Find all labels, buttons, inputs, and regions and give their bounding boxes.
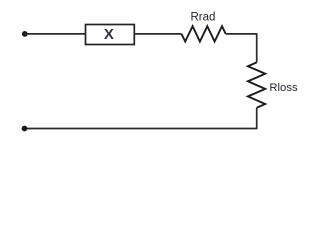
wire right vertical upper segment (256, 33, 258, 62)
terminal node bottom-left (22, 126, 28, 132)
wire from top-left terminal to box (25, 33, 86, 35)
terminal node top-left (22, 31, 28, 37)
resistor Rrad (182, 26, 226, 41)
resistor Rloss (248, 62, 265, 107)
wire from box to resistor Rrad (134, 33, 181, 35)
svg-text:Rrad: Rrad (191, 12, 216, 24)
reactance box X (86, 25, 135, 45)
wire bottom (25, 128, 258, 130)
svg-text:Rloss: Rloss (269, 82, 298, 94)
svg-text:X: X (104, 26, 114, 43)
wire from Rrad to top-right corner (226, 33, 257, 35)
wire right vertical lower segment (256, 108, 258, 129)
